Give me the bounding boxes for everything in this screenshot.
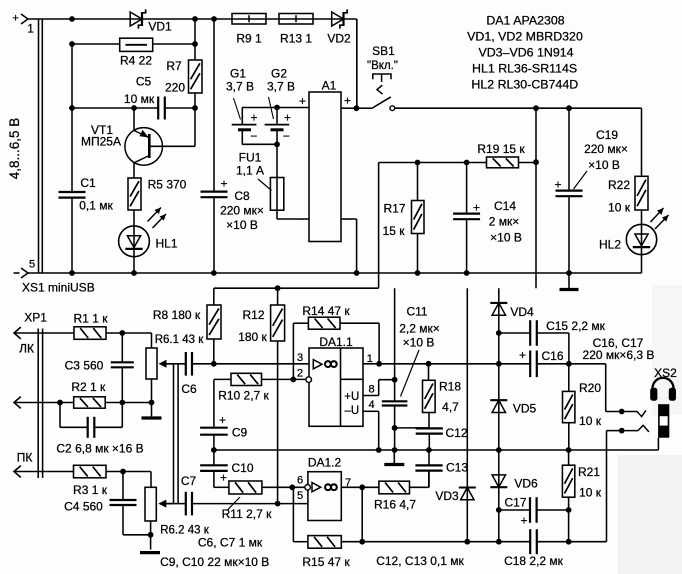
capacitor C16 [519,348,564,377]
svg-text:VD3: VD3 [435,489,459,503]
svg-text:2,2 мк×: 2,2 мк× [399,322,440,336]
svg-text:15 к: 15 к [383,224,406,238]
svg-text:DA1.2: DA1.2 [308,456,342,470]
connector XP1 body (double line) [17,311,47,479]
svg-text:C10: C10 [231,461,253,475]
wire filtered supply y=162.5 [379,108,539,288]
svg-text:5: 5 [297,490,303,502]
svg-text:+: + [219,413,226,427]
capacitor C3 [65,333,134,403]
svg-text:+: + [250,111,257,125]
node jack tip contact [619,409,646,417]
svg-text:C9, C10 22 мк×10 В: C9, C10 22 мк×10 В [160,555,269,569]
potentiometer R6.1 [146,334,204,403]
resistor R15 [293,487,362,569]
svg-text:R3 1 к: R3 1 к [73,483,108,497]
resistor R5 [128,178,187,211]
svg-text:−: − [298,212,305,226]
svg-text:VD4: VD4 [510,305,534,319]
resistor R10 [214,373,306,428]
wire A1 right pins [341,19,359,273]
wire DA1.1 supply pins 8 and 4 [363,377,398,450]
svg-text:10 к: 10 к [579,414,602,428]
capacitor C13 [415,450,468,487]
resistor R17 [383,163,424,274]
resistor R3 [73,465,108,497]
svg-text:+: + [344,94,351,108]
svg-text:C2 6,8 мк ×16 В: C2 6,8 мк ×16 В [56,441,143,455]
svg-text:×10 В: ×10 В [588,158,620,172]
svg-text:R5 370: R5 370 [148,178,187,192]
svg-text:+: + [299,94,306,108]
node DA1.1 pin2 [297,352,312,382]
svg-text:C5: C5 [136,75,152,89]
resistor R1 [74,312,109,340]
resistor R8 [153,305,221,364]
wire R3 out to R6.2 [106,469,151,488]
capacitor C14 [453,163,522,274]
wire top +rail y=19 [28,16,357,108]
svg-text:VD2: VD2 [327,32,351,46]
resistor R21 [562,450,601,542]
capacitor C10 [200,450,254,487]
resistor R4 [120,38,153,67]
svg-text:R14 47 к: R14 47 к [302,304,350,318]
svg-text:C8: C8 [234,189,250,203]
wire stereo pot link [174,364,179,504]
resistor R22 [608,108,648,214]
connector XS2 jack [650,366,677,450]
svg-text:10 мк: 10 мк [124,92,155,106]
svg-text:+: + [473,201,480,215]
resistor R9 [232,14,266,46]
svg-text:FU1: FU1 [239,151,262,165]
capacitor C9 [200,413,247,450]
svg-text:R18: R18 [439,379,461,393]
svg-text:C6: C6 [181,382,197,396]
converter A1 [298,79,351,242]
svg-text:C13: C13 [446,461,468,475]
LED HL2 [599,208,669,273]
svg-text:R10 2,7 к: R10 2,7 к [218,389,269,403]
svg-text:1: 1 [367,353,373,365]
svg-text:+: + [220,471,227,485]
svg-text:"Вкл.": "Вкл." [367,60,398,72]
svg-text:5: 5 [29,259,35,271]
LED HL1 [119,208,178,274]
svg-text:R6.1 43 к: R6.1 43 к [155,334,204,346]
resistor R2 [71,380,106,408]
svg-text:ПК: ПК [17,451,33,465]
diode VD1 [130,9,172,33]
svg-text:+: + [220,177,227,191]
svg-text:R4 22: R4 22 [120,54,152,68]
wire output bottom net y=541.7 [359,539,530,545]
resistor R18 [423,364,462,428]
svg-text:R21: R21 [578,465,600,479]
svg-text:4,8...6,5 В: 4,8...6,5 В [7,118,22,180]
svg-text:C19: C19 [596,128,618,142]
svg-text:×10 В: ×10 В [403,336,435,350]
svg-text:220 мк×: 220 мк× [584,142,628,156]
resistor R19 [477,142,525,168]
svg-text:HL2: HL2 [599,238,621,252]
capacitor C7 [166,474,196,515]
potentiometer R6.2 [145,487,210,549]
node right channel input [14,466,74,478]
ground rail symbol [560,273,579,290]
svg-text:DA1 APA2308: DA1 APA2308 [486,13,564,27]
svg-text:C12, C13 0,1 мк: C12, C13 0,1 мк [376,554,464,568]
resistor R16 [374,471,429,512]
svg-text:–U: –U [344,405,359,417]
node common input [14,397,74,409]
svg-text:C18 2,2 мк: C18 2,2 мк [504,554,564,568]
svg-text:C4 560: C4 560 [64,500,103,514]
diode VD6 [490,450,538,542]
wire to DA1.2 pin5 [192,501,308,507]
label supply voltage [7,118,22,180]
svg-text:×10 В: ×10 В [490,231,522,245]
capacitor C17 [499,495,569,527]
wire output node to R20 [537,361,622,412]
svg-text:R17: R17 [383,202,405,216]
svg-text:R2 1 к: R2 1 к [71,380,106,394]
wire switched +V y=108 [395,105,642,111]
capacitor C2 bypass loop [56,403,143,456]
svg-text:R9 1: R9 1 [236,32,262,46]
diode VD3 [435,288,475,542]
svg-text:220: 220 [165,81,185,95]
wire R1 out to R6.1 top [106,330,152,348]
svg-text:C9: C9 [232,426,248,440]
svg-text:180 к: 180 к [238,330,267,344]
ground at C11 [384,450,404,465]
svg-text:3,7 В: 3,7 В [267,80,295,94]
svg-text:+: + [12,13,18,25]
svg-text:VD6: VD6 [514,477,538,491]
svg-text:C11: C11 [406,305,427,319]
svg-text:3: 3 [297,352,303,364]
svg-text:6: 6 [297,475,303,487]
ground at R6.2 [140,551,160,554]
svg-text:R13 1: R13 1 [280,32,312,46]
svg-text:R1 1 к: R1 1 к [74,312,109,326]
resistor R13 [279,14,313,46]
svg-text:0,1 мк: 0,1 мк [79,199,113,213]
svg-text:МП25А: МП25А [81,134,121,148]
svg-text:C14: C14 [494,199,516,213]
svg-text:1: 1 [27,24,33,36]
label parts list [467,13,583,91]
capacitor C6 [166,352,197,396]
ground at R6.1 [142,403,162,419]
battery G2 [265,67,295,145]
switch SB1 [356,44,398,111]
svg-text:XS1 miniUSB: XS1 miniUSB [22,281,95,295]
svg-text:+: + [284,111,291,125]
svg-text:VD1, VD2 MBRD320: VD1, VD2 MBRD320 [467,29,583,43]
wire battery column x=214 [213,19,215,192]
svg-text:C7: C7 [181,474,197,488]
svg-text:2 мк×: 2 мк× [489,215,520,229]
svg-text:220 мк×6,3 В: 220 мк×6,3 В [583,348,655,362]
wire battery bottom y=144.3 [242,141,280,219]
svg-text:HL1 RL36-SR114S: HL1 RL36-SR114S [472,61,577,75]
svg-text:+: + [519,348,526,362]
node left channel input [14,327,74,339]
wire battery top y=107.5 [242,105,309,111]
svg-text:×10 В: ×10 В [226,218,258,232]
capacitor C15 [499,319,606,364]
svg-text:−: − [283,129,290,143]
wire bias feed y=288 [214,285,379,305]
svg-text:HL2 RL30-CB744D: HL2 RL30-CB744D [471,77,578,91]
svg-text:2: 2 [297,368,303,380]
wire DA1.2 output pin7 [341,484,379,541]
svg-text:C3 560: C3 560 [65,359,104,373]
svg-text:G1: G1 [230,67,246,81]
fuse FU1 [236,151,284,211]
resistor R12 [238,288,284,503]
svg-text:R8 180 к: R8 180 к [153,308,201,322]
capacitor C12 [416,426,468,450]
svg-text:SB1: SB1 [372,44,395,58]
capacitor C11 [382,288,440,450]
svg-text:C6, C7 1 мк: C6, C7 1 мк [198,535,263,549]
transistor VT1 [81,108,195,178]
wire base node y=108 [69,93,198,146]
svg-text:C17: C17 [504,495,526,509]
wire to DA1.1 pin3 [192,361,309,367]
svg-text:XP1: XP1 [24,311,47,325]
connector XS1 body (double line) [39,19,43,273]
svg-text:+U: +U [344,391,359,403]
svg-text:VD5: VD5 [513,402,537,416]
resistor R20 [563,364,602,450]
capacitor C5 [124,75,165,120]
svg-text:C16: C16 [541,349,563,363]
wire common rail y=273 [14,268,642,278]
capacitor C4 [64,472,150,535]
svg-text:+: + [520,514,527,528]
svg-text:C15 2,2 мк: C15 2,2 мк [546,319,606,333]
svg-text:DA1.1: DA1.1 [319,335,353,349]
wire C18 to jack ring [537,431,622,545]
resistor R7 [165,19,202,95]
svg-text:R22: R22 [608,178,630,192]
svg-text:R15 47 к: R15 47 к [302,555,350,569]
svg-text:+: + [554,178,561,192]
svg-text:3,7 В: 3,7 В [226,80,254,94]
node XS1 pin 5 (-) [22,259,95,295]
battery G1 [226,67,258,145]
svg-text:R19 15 к: R19 15 к [477,142,525,156]
resistor R14 [293,304,379,380]
svg-text:1,1 А: 1,1 А [236,164,264,178]
svg-text:ЛК: ЛК [19,342,34,356]
diode VD2 [327,9,351,45]
wire FU1 to A1 minus y=219 [277,218,309,220]
op-amp DA1.2 [297,456,351,521]
wire virtual ground y=450 [211,447,658,453]
svg-text:G2: G2 [271,67,287,81]
svg-text:R7: R7 [166,59,182,73]
svg-text:R20: R20 [579,381,601,395]
wire R4 row y=44 [69,41,198,47]
svg-text:C12: C12 [445,426,467,440]
node jack ring contact [619,425,649,433]
resistor R11 [214,481,305,521]
svg-text:A1: A1 [322,79,337,93]
svg-text:4,7: 4,7 [442,400,459,414]
node XS1 pin 1 (+) [12,13,33,36]
wire DA1.1 output pin1 [363,353,530,367]
svg-text:R16 4,7: R16 4,7 [374,498,416,512]
svg-text:R11 2,7 к: R11 2,7 к [222,507,272,521]
diode VD4 chain [490,288,534,364]
capacitor C18 [504,529,564,568]
svg-text:220 мк×: 220 мк× [220,204,264,218]
svg-text:4: 4 [368,399,374,411]
capacitor C8 [201,177,264,274]
svg-text:10 к: 10 к [579,486,602,500]
op-amp DA1.1 [309,335,363,427]
svg-text:C1: C1 [80,176,96,190]
capacitor C1 [59,44,114,273]
svg-text:VD1: VD1 [148,20,172,34]
svg-text:VD3–VD6 1N914: VD3–VD6 1N914 [478,45,573,59]
svg-text:HL1: HL1 [155,237,177,251]
wire R2 out node [105,400,154,406]
svg-text:8: 8 [368,384,374,396]
svg-text:R12: R12 [242,308,264,322]
svg-text:10 к: 10 к [608,201,631,215]
capacitor C19 [554,108,627,273]
labels capacitor groups [160,336,654,569]
svg-text:−: − [250,129,257,143]
diode VD5 [490,364,536,450]
